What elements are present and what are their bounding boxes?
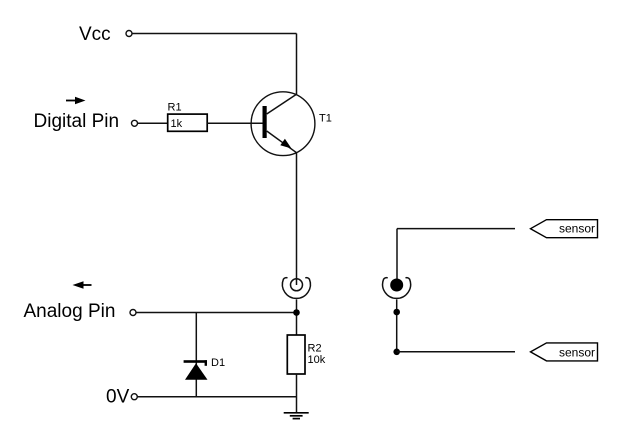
svg-text:1k: 1k [171,118,183,130]
junction node at analog/R2 [293,309,300,316]
wire 0V rail [138,396,297,398]
resistor R1 body [168,114,208,131]
wire R2 bottom to ground [296,374,298,413]
wire plug down to sensor 2 [396,299,398,351]
svg-text:sensor: sensor [559,345,595,359]
svg-text:D1: D1 [211,357,225,369]
svg-text:T1: T1 [319,113,332,125]
terminal 0V [131,394,137,400]
wire sensor 2 horizontal [397,351,515,353]
svg-text:R2: R2 [308,343,322,355]
wire Vcc horizontal to collector [132,33,296,35]
svg-text:Analog Pin: Analog Pin [24,301,116,322]
wire Analog Pin to junction [136,312,296,314]
ground [284,413,309,419]
wire emitter down to connector [296,153,298,285]
terminal Analog Pin [130,310,136,316]
sensor flag 2 [531,343,598,361]
arrow output direction (left) above Analog Pin [73,281,92,289]
connector socket (left half, open circle in cup) [282,278,310,299]
connector plug (right half, filled dot in cup) [383,278,411,299]
svg-text:0V: 0V [106,387,130,408]
diode D1 (zener, cathode up) [184,360,208,380]
junction node right lower [393,349,400,356]
wire Digital Pin to R1 [138,122,168,124]
svg-text:sensor: sensor [559,222,595,236]
wire sensor 1 horizontal [397,228,515,230]
junction node right upper [393,309,400,316]
wire connector to R2 top [296,299,298,335]
resistor R2 body [287,335,305,374]
svg-text:R1: R1 [168,102,182,114]
svg-text:Vcc: Vcc [79,24,111,45]
svg-text:Digital Pin: Digital Pin [34,111,120,132]
arrow input direction (right) above Digital Pin [66,97,86,104]
wire diode branch vertical [195,313,197,397]
transistor T1 (NPN) [251,92,315,156]
terminal Digital Pin [132,120,138,126]
wire R1 to base [207,122,262,124]
wire collector vertical drop [296,34,298,95]
terminal Vcc pin [126,31,132,37]
wire sensor 1 vertical drop to plug [396,229,398,279]
sensor flag 1 [531,220,598,238]
svg-text:10k: 10k [308,354,326,366]
